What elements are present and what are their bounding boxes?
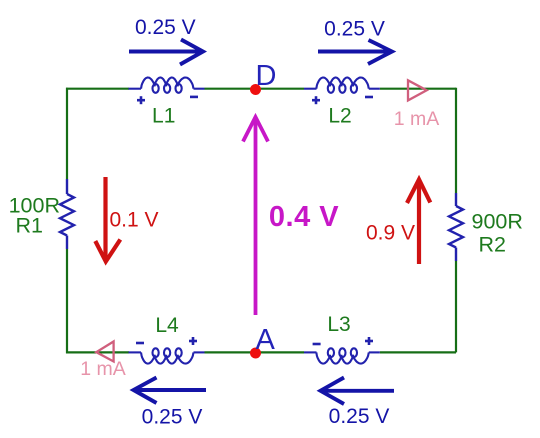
svg-text:A: A: [256, 324, 276, 356]
voltage arrow 0.1 V across R1: [95, 177, 120, 262]
voltage arrow 0.4 V from A to D: [243, 117, 268, 315]
L1 plus sign: [137, 96, 145, 104]
wire right segment: [455, 88, 457, 353]
L2 plus sign: [312, 96, 320, 104]
svg-text:R2: R2: [479, 233, 506, 257]
current arrow 1 mA bottom-left: [96, 342, 113, 362]
L3 plus sign: [365, 337, 373, 345]
resistor R1: [60, 179, 74, 249]
L4 label: [155, 314, 179, 337]
svg-text:1 mA: 1 mA: [80, 358, 126, 380]
voltage label 0.25 V under L4: [142, 406, 203, 429]
current label 1 mA bottom-left: [80, 358, 126, 380]
voltage arrow 0.25 V under L4: [134, 378, 207, 404]
voltage arrow 0.25 V under L3: [321, 378, 395, 405]
svg-text:L1: L1: [152, 105, 175, 128]
wire top-right segment: [380, 88, 456, 90]
R2 value label 900R: [472, 210, 523, 234]
wire bottom-left segment: [66, 351, 129, 353]
L2 minus sign: [365, 96, 373, 99]
R2 label: [479, 233, 506, 257]
voltage label 0.25 V under L3: [329, 405, 390, 428]
wire bottom-right segment: [380, 351, 456, 353]
wire left segment: [66, 88, 68, 354]
voltage label 0.25 V over L1: [135, 16, 196, 39]
L4 minus sign: [136, 342, 144, 345]
voltage arrow 0.25 V over L1: [129, 40, 203, 65]
svg-text:1 mA: 1 mA: [394, 108, 440, 130]
current label 1 mA top-right: [394, 108, 440, 130]
inductor L1: [129, 78, 205, 93]
wire top-middle segment: [205, 88, 305, 90]
L3 minus sign: [313, 343, 321, 346]
R1 value label 100R: [9, 194, 60, 218]
svg-text:0.25 V: 0.25 V: [329, 405, 390, 428]
node D label: [256, 60, 277, 92]
svg-text:0.25 V: 0.25 V: [324, 18, 385, 41]
voltage label 0.9 V: [366, 222, 415, 245]
current arrow 1 mA top-right: [408, 80, 427, 100]
svg-text:0.9 V: 0.9 V: [366, 222, 415, 245]
inductor L2: [304, 78, 380, 93]
node A label: [256, 324, 276, 356]
svg-text:L4: L4: [155, 314, 179, 337]
svg-text:0.1 V: 0.1 V: [109, 209, 158, 232]
voltage arrow 0.9 V across R2: [407, 180, 430, 265]
L1 minus sign: [190, 96, 198, 99]
voltage label 0.25 V over L2: [324, 18, 385, 41]
L4 plus sign: [189, 337, 197, 345]
svg-text:0.4 V: 0.4 V: [269, 201, 339, 233]
svg-text:R1: R1: [16, 214, 43, 238]
node A dot: [250, 348, 261, 359]
svg-text:0.25 V: 0.25 V: [142, 406, 203, 429]
svg-text:D: D: [256, 60, 277, 92]
svg-text:L3: L3: [327, 313, 350, 336]
inductor L3: [304, 348, 380, 363]
L3 label: [327, 313, 350, 336]
inductor L4: [129, 348, 205, 363]
resistor R2: [449, 193, 463, 261]
svg-text:0.25 V: 0.25 V: [135, 16, 196, 39]
L2 label: [328, 105, 351, 128]
wire top-left segment: [66, 88, 129, 90]
L1 label: [152, 105, 175, 128]
svg-text:900R: 900R: [472, 210, 523, 234]
wire bottom-middle segment: [205, 351, 305, 353]
svg-text:L2: L2: [328, 105, 351, 128]
R1 label: [16, 214, 43, 238]
voltage label 0.4 V: [269, 201, 339, 233]
voltage arrow 0.25 V over L2: [318, 40, 392, 64]
node D dot: [250, 84, 261, 95]
voltage label 0.1 V: [109, 209, 158, 232]
